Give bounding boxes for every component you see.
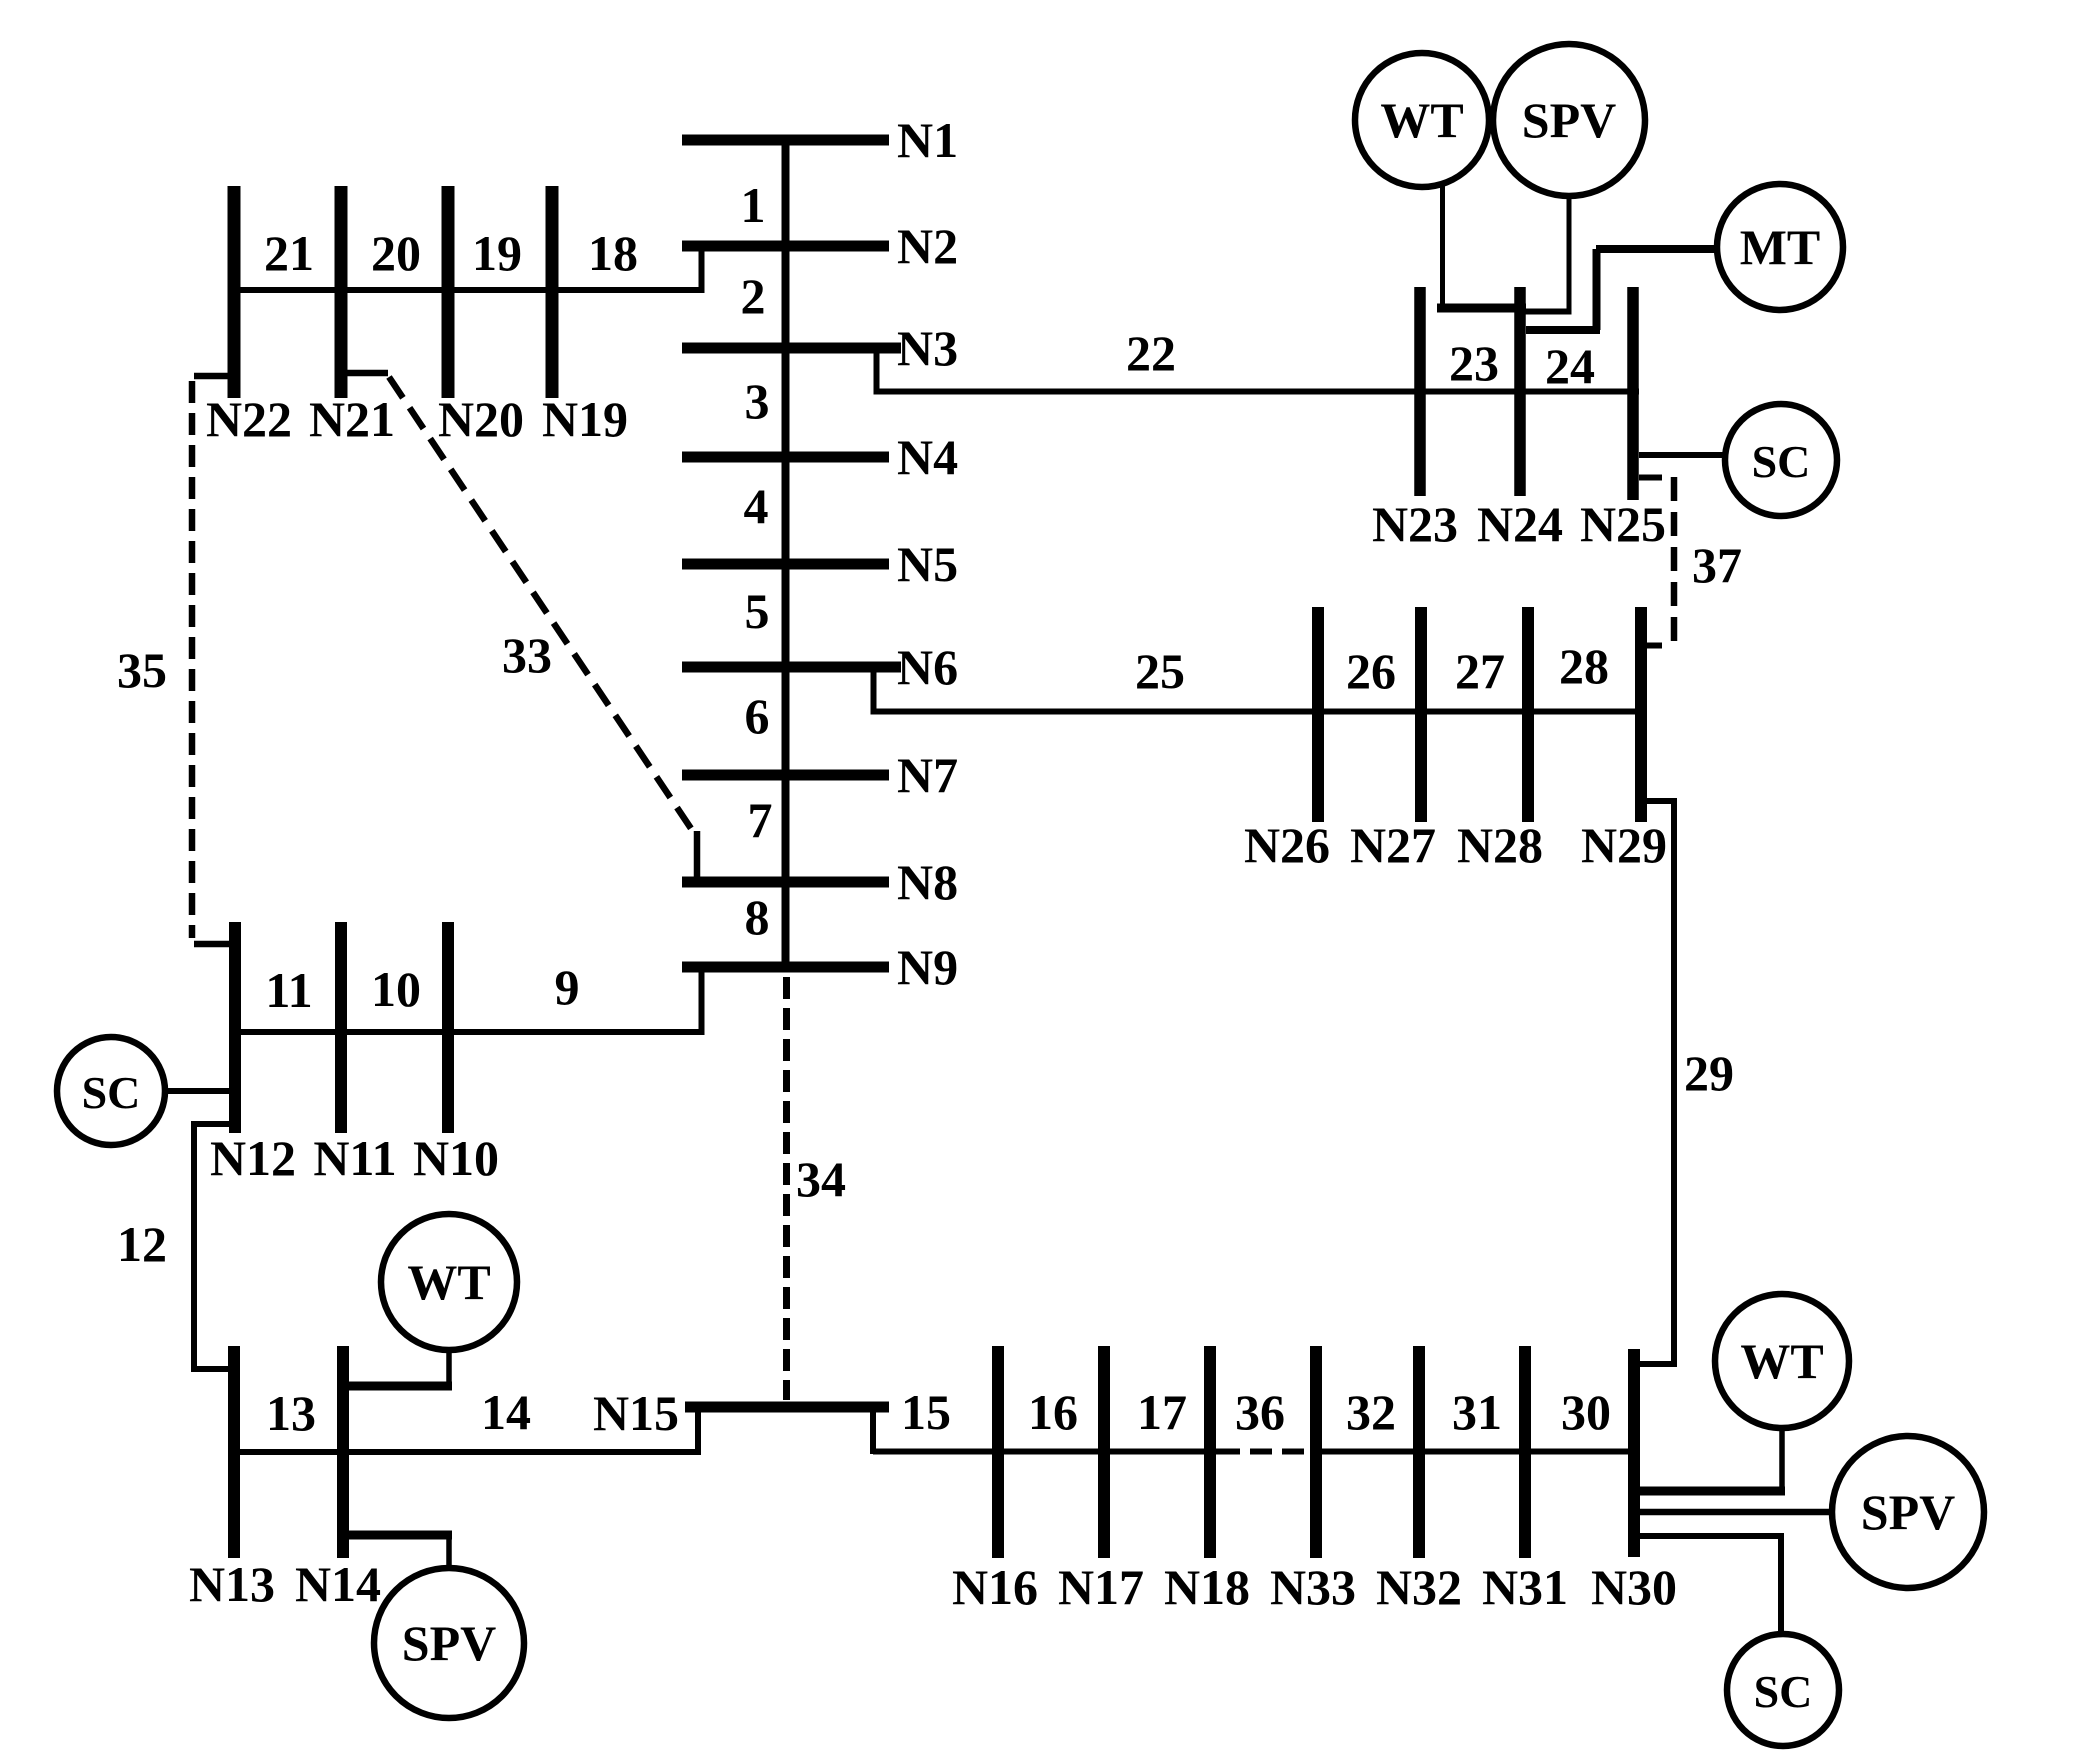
svg-text:37: 37: [1692, 537, 1742, 593]
bus N28: [1522, 607, 1534, 822]
svg-text:13: 13: [266, 1385, 316, 1441]
wire SPV to N30: [1638, 1509, 1834, 1516]
svg-text:N3: N3: [897, 320, 958, 376]
svg-text:WT: WT: [1740, 1333, 1823, 1389]
svg-text:N27: N27: [1350, 817, 1436, 873]
bus N14: [337, 1346, 349, 1558]
svg-text:N28: N28: [1457, 817, 1543, 873]
wire branch 25-28 lateral: [872, 709, 1647, 715]
wind turbine WT at N14: [381, 1214, 517, 1350]
svg-text:N15: N15: [593, 1385, 679, 1441]
svg-text:14: 14: [481, 1384, 531, 1440]
supercapacitor SC at N12: [57, 1037, 165, 1145]
svg-text:SPV: SPV: [1522, 92, 1616, 148]
svg-text:28: 28: [1559, 638, 1609, 694]
svg-text:N2: N2: [897, 218, 958, 274]
svg-text:MT: MT: [1740, 219, 1821, 275]
svg-text:15: 15: [901, 1384, 951, 1440]
svg-text:26: 26: [1346, 643, 1396, 699]
wire SPV to N24: [1515, 309, 1572, 315]
svg-text:N26: N26: [1244, 817, 1330, 873]
bus N22: [228, 186, 241, 398]
svg-text:SC: SC: [82, 1067, 141, 1118]
bus N15: [685, 1402, 889, 1413]
wire WT to N24: [1437, 304, 1526, 313]
svg-text:N13: N13: [189, 1556, 275, 1612]
svg-text:1: 1: [741, 177, 766, 233]
wire SPV drop at N24: [1567, 194, 1572, 313]
bus N26: [1312, 607, 1324, 822]
svg-text:N6: N6: [897, 639, 958, 695]
wind turbine WT at N24: [1355, 53, 1489, 187]
wind turbine WT at N30: [1715, 1294, 1849, 1428]
svg-text:7: 7: [748, 792, 773, 848]
tie line 36 (dashed): [1218, 1449, 1313, 1455]
wire MT to N24: [1526, 326, 1600, 334]
wire WT drop at N30: [1779, 1426, 1785, 1494]
bus N13: [228, 1346, 240, 1558]
tie line 33 stub at N8: [694, 831, 701, 879]
bus N1: [682, 135, 889, 146]
svg-text:N5: N5: [897, 536, 958, 592]
svg-text:N31: N31: [1482, 1559, 1568, 1615]
svg-text:24: 24: [1545, 338, 1595, 394]
svg-text:20: 20: [371, 225, 421, 281]
tie line 33 (dashed): [389, 377, 694, 833]
svg-text:6: 6: [745, 688, 770, 744]
wire branch 12: [194, 1124, 230, 1369]
wire SPV to N14: [339, 1531, 452, 1540]
svg-text:N7: N7: [897, 747, 958, 803]
svg-text:9: 9: [555, 959, 580, 1015]
svg-text:N9: N9: [897, 939, 958, 995]
bus N32: [1413, 1346, 1425, 1558]
bus N6: [682, 662, 901, 673]
svg-text:8: 8: [745, 889, 770, 945]
svg-text:29: 29: [1684, 1045, 1734, 1101]
bus N19: [546, 186, 559, 398]
bus N23: [1414, 287, 1426, 496]
bus N20: [442, 186, 455, 398]
svg-text:N4: N4: [897, 429, 958, 485]
bus N11: [335, 922, 347, 1133]
svg-text:16: 16: [1028, 1384, 1078, 1440]
wire WT drop at N24: [1440, 185, 1445, 310]
svg-text:N23: N23: [1372, 496, 1458, 552]
wire branch 32-30 lateral: [1313, 1449, 1640, 1455]
bus N3: [682, 343, 901, 354]
svg-text:N21: N21: [309, 391, 395, 447]
svg-text:3: 3: [745, 373, 770, 429]
tie line 35 stub at N12: [194, 941, 231, 948]
bus N8: [682, 877, 889, 888]
tie line 37 stub at N29: [1639, 643, 1662, 649]
wire WT to N30: [1636, 1487, 1785, 1496]
bus N27: [1415, 607, 1427, 822]
wire main feeder N1-N9: [782, 140, 790, 972]
bus N30: [1628, 1349, 1640, 1557]
wire elbow to N9: [699, 970, 705, 1035]
bus N21: [335, 186, 348, 398]
svg-text:N25: N25: [1580, 496, 1666, 552]
svg-text:N32: N32: [1376, 1559, 1462, 1615]
svg-text:23: 23: [1449, 335, 1499, 391]
wire elbow to N15: [695, 1410, 701, 1455]
svg-text:30: 30: [1561, 1384, 1611, 1440]
wire elbow to N2: [699, 248, 705, 293]
svg-text:4: 4: [744, 478, 769, 534]
tie line 37 stub at N25: [1639, 475, 1662, 481]
wire SC to N12: [163, 1088, 231, 1094]
bus N7: [682, 770, 889, 781]
svg-text:27: 27: [1455, 643, 1505, 699]
svg-text:25: 25: [1135, 643, 1185, 699]
bus N9: [682, 962, 889, 973]
svg-text:N12: N12: [210, 1130, 296, 1186]
svg-text:33: 33: [502, 627, 552, 683]
wire branch 22-24 lateral: [876, 389, 1639, 395]
wire SC to N30: [1638, 1536, 1781, 1636]
wire branch 29: [1638, 801, 1674, 1364]
wire WT to N14: [339, 1382, 452, 1391]
bus N10: [442, 922, 454, 1133]
svg-text:N14: N14: [295, 1556, 381, 1612]
wire WT drop: [446, 1348, 452, 1390]
solar PV SPV at N30: [1832, 1436, 1984, 1588]
svg-text:34: 34: [796, 1151, 846, 1207]
wire SC to N25: [1639, 452, 1727, 458]
svg-text:10: 10: [371, 961, 421, 1017]
bus N4: [682, 452, 889, 463]
wire branch 18-21 lateral: [228, 287, 702, 293]
svg-text:18: 18: [588, 225, 638, 281]
svg-text:N17: N17: [1058, 1559, 1144, 1615]
tie line 34 (dashed): [783, 977, 790, 1400]
svg-text:N11: N11: [313, 1130, 396, 1186]
bus N16: [992, 1346, 1004, 1558]
bus N5: [682, 559, 889, 570]
svg-text:32: 32: [1346, 1384, 1396, 1440]
wire MT lead: [1596, 245, 1719, 253]
bus N12: [229, 922, 241, 1133]
wire elbow to N6: [871, 669, 877, 715]
svg-text:11: 11: [265, 962, 312, 1018]
tie line 33 stub at N21: [341, 370, 388, 377]
microturbine MT at N24: [1717, 184, 1843, 310]
svg-text:N18: N18: [1164, 1559, 1250, 1615]
svg-text:12: 12: [117, 1216, 167, 1272]
svg-text:N10: N10: [413, 1130, 499, 1186]
wire elbow below N15: [870, 1410, 876, 1454]
svg-text:N8: N8: [897, 854, 958, 910]
svg-text:SC: SC: [1752, 436, 1811, 487]
bus N24: [1514, 287, 1526, 496]
wire MT elbow: [1593, 249, 1601, 330]
solar PV SPV at N14: [374, 1568, 524, 1718]
bus N2: [682, 241, 889, 252]
bus N17: [1098, 1346, 1110, 1558]
svg-text:36: 36: [1235, 1384, 1285, 1440]
svg-text:5: 5: [745, 583, 770, 639]
svg-text:N1: N1: [897, 112, 958, 168]
wire branch 15-17 lateral: [873, 1449, 1218, 1455]
wire branch 9-11 lateral: [229, 1029, 702, 1035]
svg-text:N22: N22: [206, 391, 292, 447]
tie line 35 stub at N22: [194, 373, 230, 380]
supercapacitor SC at N25: [1725, 404, 1837, 516]
svg-text:WT: WT: [407, 1254, 490, 1310]
solar PV SPV at N24: [1493, 44, 1645, 196]
bus N25: [1627, 287, 1639, 500]
svg-text:N20: N20: [438, 391, 524, 447]
svg-text:SPV: SPV: [402, 1615, 496, 1671]
svg-text:N24: N24: [1477, 496, 1563, 552]
svg-text:N19: N19: [542, 391, 628, 447]
svg-text:31: 31: [1452, 1384, 1502, 1440]
svg-text:22: 22: [1126, 325, 1176, 381]
svg-text:19: 19: [472, 225, 522, 281]
svg-text:N33: N33: [1270, 1559, 1356, 1615]
svg-text:35: 35: [117, 642, 167, 698]
bus N33: [1310, 1346, 1322, 1558]
svg-text:N30: N30: [1591, 1559, 1677, 1615]
svg-text:21: 21: [264, 225, 314, 281]
wire elbow to N3: [874, 351, 880, 395]
supercapacitor SC at N30: [1727, 1634, 1839, 1746]
bus N31: [1519, 1346, 1531, 1558]
wire SPV drop: [446, 1532, 452, 1570]
svg-text:SC: SC: [1754, 1666, 1813, 1717]
bus N18: [1204, 1346, 1216, 1558]
bus N29: [1635, 607, 1647, 822]
tie line 37 (dashed): [1671, 477, 1678, 650]
tie line 35 (dashed): [189, 381, 196, 938]
wire branch 13-14 lateral: [228, 1449, 698, 1455]
svg-text:N16: N16: [952, 1559, 1038, 1615]
svg-text:N29: N29: [1581, 817, 1667, 873]
svg-text:2: 2: [741, 268, 766, 324]
svg-text:SPV: SPV: [1861, 1484, 1955, 1540]
svg-text:WT: WT: [1380, 92, 1463, 148]
svg-text:17: 17: [1137, 1384, 1187, 1440]
